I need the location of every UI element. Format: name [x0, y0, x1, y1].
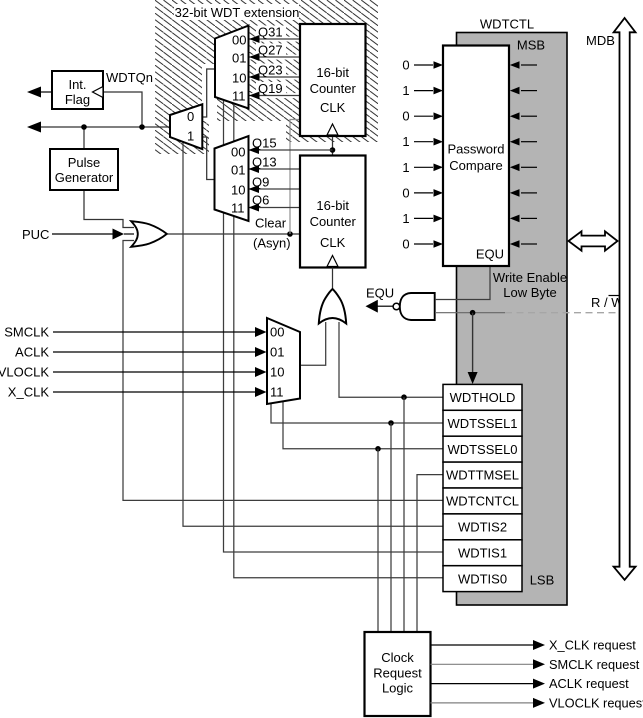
wire: Q15 tap	[249, 149, 333, 151]
wire: write enable low byte / RW to nand bottom input	[435, 312, 505, 314]
MDB vertical bus arrow	[614, 18, 636, 580]
svg-text:00: 00	[270, 325, 284, 340]
labels password bits 0 1 0 1 1 0 1 0	[402, 58, 409, 252]
svg-text:LSB: LSB	[530, 573, 555, 588]
int flag box	[52, 71, 103, 109]
nand bubble	[393, 303, 400, 310]
wire: Q15 cascade from U2 to U1 clock	[332, 137, 334, 156]
svg-text:1: 1	[187, 129, 194, 144]
svg-text:Generator: Generator	[55, 170, 114, 185]
horizontal bidirectional bus arrow	[569, 231, 618, 250]
svg-text:Q9: Q9	[252, 175, 269, 190]
svg-text:1: 1	[402, 160, 409, 175]
mux M2 (Q15..Q6)	[215, 136, 249, 221]
wire: WDTIS0 select vertical (lower segment)	[234, 216, 443, 578]
svg-text:Request: Request	[373, 666, 422, 681]
wire: pulse generator output to OR1 top input	[84, 190, 134, 228]
svg-text:1: 1	[402, 134, 409, 149]
16-bit counter U2	[300, 156, 366, 268]
nand gate U3 (EQU write gate)	[400, 293, 435, 320]
svg-text:1: 1	[402, 211, 409, 226]
wire: clock mux output to OR2 left input	[300, 322, 326, 365]
svg-text:Clear: Clear	[255, 216, 287, 231]
mux M1 (Q31..Q19)	[215, 26, 249, 109]
svg-text:Password: Password	[447, 142, 504, 157]
svg-text:Q31: Q31	[258, 25, 283, 40]
svg-text:X_CLK request: X_CLK request	[549, 638, 636, 653]
wire: ACLK input	[53, 351, 256, 353]
register bit labels	[446, 390, 519, 586]
wire: mux1 output to small mux input 0	[202, 69, 215, 117]
wire: write strobe down into WDTHOLD register	[472, 313, 474, 373]
wire: WDTTMSEL down to clock request logic	[417, 475, 443, 632]
label plates and wire channels for Q31/Q27/Q23/Q19	[256, 26, 286, 39]
wire: ACLK request output	[431, 683, 535, 685]
svg-text:(Asyn): (Asyn)	[253, 236, 291, 251]
wire: Q19 tap	[249, 95, 300, 97]
int flag clock triangle	[93, 87, 104, 98]
wire: WDTSSEL1 to clock mux select	[271, 403, 443, 423]
junction RW	[470, 310, 476, 316]
svg-text:MSB: MSB	[517, 38, 545, 53]
svg-text:0: 0	[402, 185, 409, 200]
svg-text:WDTHOLD: WDTHOLD	[450, 390, 516, 405]
svg-text:Q19: Q19	[258, 81, 283, 96]
hatched region: 32-bit WDT extension area	[155, 0, 378, 142]
svg-text:VLOCLK: VLOCLK	[0, 365, 49, 380]
wire: Q9 tap	[249, 188, 301, 190]
svg-text:01: 01	[232, 51, 246, 66]
svg-text:10: 10	[232, 71, 246, 86]
svg-text:EQU: EQU	[366, 286, 394, 301]
svg-text:11: 11	[231, 201, 245, 216]
svg-text:ACLK: ACLK	[15, 345, 49, 360]
or-gate OR2 (clock gate)	[319, 289, 346, 324]
data bus arrows into password compare (right side)	[521, 65, 537, 244]
wire: WDTHOLD to OR2 right input	[339, 322, 443, 397]
wire: OR1 output (counter clear)	[166, 233, 299, 235]
counter U1 clock triangle	[327, 124, 338, 135]
wire: dashed R/W line	[505, 312, 618, 314]
svg-text:Flag: Flag	[65, 92, 90, 107]
svg-text:EQU: EQU	[476, 247, 504, 262]
wire: VLOCLK request output	[431, 702, 535, 704]
svg-text:00: 00	[231, 145, 245, 160]
svg-text:WDTIS2: WDTIS2	[458, 520, 507, 535]
svg-text:Write Enable: Write Enable	[493, 270, 567, 285]
white cutout notch around Q15 area	[209, 121, 286, 142]
svg-text:11: 11	[270, 385, 284, 400]
svg-text:0: 0	[402, 58, 409, 73]
svg-text:16-bit: 16-bit	[316, 65, 349, 80]
wire: WDTIS0 select vertical (upper segment between muxes)	[233, 105, 235, 142]
svg-text:1: 1	[402, 83, 409, 98]
wire: WDTSSEL0 down to clock request logic	[377, 449, 379, 632]
wire: OR2 output to U2 clock	[332, 268, 334, 289]
svg-text:X_CLK: X_CLK	[8, 385, 50, 400]
wire: mux2 output to small mux input 1	[202, 137, 214, 180]
small mux M3 (0/1)	[170, 104, 202, 149]
wire: WDTQn from Int Flag clock to net	[103, 92, 142, 127]
wire: WDTIS2 select vertical to small mux	[183, 142, 443, 526]
svg-text:SMCLK: SMCLK	[4, 325, 49, 340]
svg-text:Q23: Q23	[258, 63, 283, 78]
wire: SMCLK request output	[431, 663, 535, 665]
wire: clear up to first counter	[290, 120, 299, 235]
password compare input bits and arrows	[414, 65, 433, 244]
svg-text:00: 00	[232, 33, 246, 48]
white cutout band behind mux interconnect wires	[202, 64, 217, 121]
svg-text:10: 10	[270, 365, 284, 380]
junction WDTHOLD	[401, 394, 407, 400]
svg-text:Logic: Logic	[382, 681, 414, 696]
svg-text:CLK: CLK	[320, 235, 346, 250]
svg-text:Q13: Q13	[252, 155, 277, 170]
svg-text:CLK: CLK	[320, 100, 346, 115]
wire: Q13 tap	[249, 168, 301, 170]
svg-text:Q15: Q15	[252, 136, 277, 151]
svg-text:Pulse: Pulse	[68, 155, 101, 170]
white cutout behind extension title	[174, 4, 299, 20]
svg-text:WDTCNTCL: WDTCNTCL	[446, 494, 519, 509]
wire: X_CLK request output	[431, 644, 535, 646]
wire: X_CLK input	[53, 391, 256, 393]
svg-text:ACLK request: ACLK request	[549, 676, 629, 691]
wire: WDTSSEL1 down to clock request logic	[390, 423, 392, 632]
svg-text:Q27: Q27	[258, 43, 283, 58]
wire: WDTHOLD down to clock request logic	[403, 397, 405, 632]
junction WDTQn	[139, 124, 145, 130]
counter U2 clock triangle	[327, 256, 338, 267]
or-gate OR1 (PUC / pulse / WDTCNTCL)	[131, 221, 167, 247]
svg-text:01: 01	[270, 345, 284, 360]
svg-text:WDTSSEL0: WDTSSEL0	[447, 442, 517, 457]
clock mux M4	[267, 318, 300, 404]
gray WDTCTL register block	[457, 33, 568, 606]
wire: WDTSSEL0 to clock mux select	[283, 401, 443, 448]
wire: EQU from password compare to nand top input	[435, 266, 490, 300]
svg-text:32-bit WDT extension: 32-bit WDT extension	[175, 5, 300, 20]
wire: Q23 tap	[249, 76, 300, 78]
svg-text:Counter: Counter	[310, 214, 357, 229]
wire: WDTQn net horizontal	[41, 126, 170, 128]
wire: PUC input	[52, 233, 113, 235]
svg-text:01: 01	[231, 163, 245, 178]
16-bit counter U1	[300, 24, 366, 136]
wire: WDTCNTCL loopback to OR1 bottom input	[123, 241, 443, 501]
wire: VLOCLK input	[53, 371, 256, 373]
svg-text:11: 11	[232, 89, 246, 104]
svg-text:SMCLK request: SMCLK request	[549, 657, 640, 672]
junction Q15	[330, 147, 336, 153]
svg-text:Q6: Q6	[252, 193, 269, 208]
wire: Q6 tap	[249, 207, 301, 209]
svg-text:WDTSSEL1: WDTSSEL1	[447, 416, 517, 431]
svg-text:WDTIS1: WDTIS1	[458, 545, 507, 560]
svg-text:WDTTMSEL: WDTTMSEL	[446, 468, 519, 483]
junction pulse generator tap	[81, 124, 87, 130]
svg-text:Clock: Clock	[381, 650, 414, 665]
pulse generator box	[50, 149, 118, 190]
svg-text:0: 0	[402, 109, 409, 124]
svg-text:0: 0	[402, 237, 409, 252]
clock request logic box	[365, 632, 431, 716]
svg-text:MDB: MDB	[586, 33, 615, 48]
junction WDTSSEL1	[388, 420, 394, 426]
svg-text:WDTIS0: WDTIS0	[458, 571, 507, 586]
svg-text:WDTQn: WDTQn	[106, 70, 153, 85]
svg-text:16-bit: 16-bit	[316, 198, 349, 213]
register bit rows	[443, 384, 522, 591]
svg-text:Compare: Compare	[449, 158, 502, 173]
wire: EQU output arrow	[378, 305, 394, 307]
wire: SMCLK input	[53, 331, 256, 333]
svg-text:Int.: Int.	[68, 77, 86, 92]
wire: flag output arrow	[41, 91, 52, 93]
wire: Q27 tap	[249, 56, 300, 58]
svg-text:PUC: PUC	[22, 227, 49, 242]
svg-text:10: 10	[231, 183, 245, 198]
wire: net to pulse generator	[83, 127, 85, 149]
password compare box	[443, 46, 509, 267]
wire: WDTIS1 select vertical (lower segment)	[224, 213, 444, 553]
svg-text:WDTCTL: WDTCTL	[480, 17, 534, 32]
svg-text:Low Byte: Low Byte	[503, 285, 556, 300]
wire: Q31 tap	[249, 38, 300, 40]
junction clear	[287, 231, 293, 237]
svg-text:VLOCLK request: VLOCLK request	[549, 695, 643, 710]
svg-text:0: 0	[187, 109, 194, 124]
wire: WDTIS1 select vertical (upper segment between muxes)	[223, 101, 225, 145]
junction WDTSSEL0	[375, 446, 381, 452]
svg-text:Counter: Counter	[310, 81, 357, 96]
